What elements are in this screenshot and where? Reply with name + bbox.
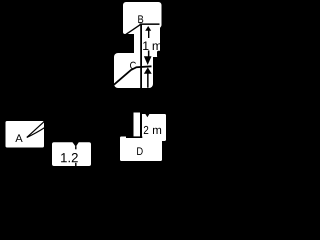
dimension 1 m: label m — [153, 43, 162, 50]
white island: D left column — [134, 113, 141, 139]
node C label — [130, 62, 136, 69]
dimension 2 m: label 2 — [144, 126, 148, 134]
white island: B box lower-left shoulder — [123, 18, 160, 34]
wire: D level horizontal line — [126, 136, 142, 138]
white island: 2 m box — [141, 114, 166, 141]
node D label — [137, 147, 143, 155]
dimension 2 m: bottom arrowhead — [144, 112, 151, 118]
wire: B platform line — [140, 23, 160, 25]
white island: 1 m column — [134, 24, 160, 57]
wire: slope below B — [125, 24, 142, 35]
white island: C slope box — [114, 53, 153, 88]
dimension 2 m: stem — [147, 74, 149, 88]
dimension 2 m: top arrowhead — [144, 67, 152, 73]
white island: A box — [6, 121, 45, 148]
wire: vertical edge line from B corner down to D level — [140, 24, 142, 138]
dimension 1 m: label 1 — [143, 41, 148, 50]
dimension 1.2: upper stem — [75, 146, 76, 149]
dimension 1 m: upper stem — [148, 30, 149, 38]
node B label — [138, 15, 143, 23]
white island: B platform box — [123, 2, 162, 28]
dimension 2 m: label m — [153, 128, 161, 134]
dimension 1 m: bottom arrowhead — [144, 56, 152, 65]
background notch left of 1 m column — [117, 34, 134, 53]
white island: D box — [120, 137, 162, 162]
node A label — [15, 134, 22, 142]
dimension 1.2: label — [61, 153, 67, 162]
wire: slope up to C — [114, 66, 152, 85]
background notch right of 1 m column — [157, 51, 163, 58]
wedge arrow at A: upper line — [27, 121, 45, 138]
wedge arrow at A: lower line — [27, 127, 45, 137]
white island: 1.2 box — [52, 142, 91, 166]
dimension 1 m: lower stem — [148, 51, 150, 58]
dimension 1 m: top arrowhead — [145, 26, 151, 31]
dimension 1.2: lower stem — [75, 163, 76, 166]
dimension 1.2: arrowhead — [72, 142, 79, 147]
